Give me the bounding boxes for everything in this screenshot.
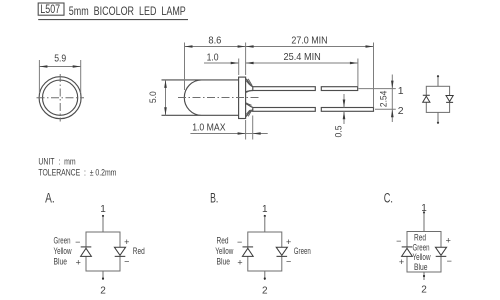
mini schematic left diode [423, 95, 430, 102]
svg-text:25.4 MIN: 25.4 MIN [284, 52, 321, 63]
dim 8.6 left extension [184, 43, 186, 91]
svg-text:5.9: 5.9 [54, 54, 66, 65]
dim 1.0 line with outside arrow [204, 62, 239, 64]
svg-text:1: 1 [100, 204, 106, 215]
svg-text:+: + [399, 257, 404, 267]
svg-text:+: + [286, 237, 291, 247]
svg-text:Yellow: Yellow [215, 246, 233, 256]
dim 2.54 lead1 extension [359, 88, 396, 90]
side view dome body [162, 80, 239, 115]
dim 5.9 extension lines [38, 60, 40, 93]
seating plane extension [245, 43, 247, 76]
svg-text:L507: L507 [40, 4, 60, 16]
svg-text:UNIT : mm: UNIT : mm [38, 157, 75, 168]
circuit A pin 2 dot [102, 277, 104, 279]
circuit C right diode [435, 247, 446, 256]
svg-text:−: − [286, 257, 291, 267]
svg-text:Blue: Blue [54, 257, 68, 267]
svg-text:Red: Red [217, 236, 229, 246]
svg-text:+: + [124, 237, 129, 247]
svg-text:A.: A. [45, 191, 55, 206]
svg-text:5mm BICOLOR LED LAMP: 5mm BICOLOR LED LAMP [69, 4, 186, 18]
side view flange [239, 77, 246, 118]
svg-text:27.0 MIN: 27.0 MIN [291, 35, 327, 46]
circuit B body rect [248, 232, 282, 271]
dim 25.4 MIN right extension [357, 59, 359, 87]
mini schematic pin 1 dot [437, 75, 439, 77]
circuit B pin 2 wire [264, 271, 266, 280]
mini schematic body rect [426, 86, 449, 112]
svg-text:Green: Green [413, 242, 430, 252]
front view horizontal centerline [37, 97, 85, 99]
circuit B pin 1 dot [264, 215, 266, 217]
svg-text:8.6: 8.6 [208, 36, 221, 47]
svg-text:+: + [76, 258, 81, 268]
svg-text:+: + [446, 236, 451, 246]
front view outer circle [39, 77, 81, 119]
svg-text:C.: C. [384, 191, 393, 206]
dim 2.54 line [391, 75, 393, 89]
dim 5.9 line [39, 66, 80, 68]
svg-text:0.5: 0.5 [334, 126, 344, 138]
svg-text:Blue: Blue [217, 257, 231, 267]
dim 0.5 line lower [343, 111, 345, 124]
lead 2 segment b [321, 108, 373, 112]
circuit C pin 1 dot [423, 211, 425, 213]
svg-text:−: − [237, 237, 242, 247]
svg-text:1.0 MAX: 1.0 MAX [192, 123, 225, 134]
dim 27.0 MIN line [246, 46, 374, 48]
svg-text:TOLERANCE : ± 0.2mm: TOLERANCE : ± 0.2mm [38, 167, 116, 178]
svg-text:2: 2 [421, 285, 427, 296]
dim 1.0 MAX line [190, 133, 267, 135]
circuit A pin 1 wire [102, 216, 104, 232]
dim 27.0 MIN right extension [373, 43, 375, 108]
front view vertical centerline [59, 74, 61, 122]
circuit B pin 2 dot [264, 277, 266, 279]
svg-text:−: − [396, 236, 401, 246]
circuit A body rect [86, 232, 120, 271]
circuit C left diode [402, 247, 413, 257]
circuit B right diode (green) [276, 247, 287, 256]
title underline [38, 19, 188, 21]
svg-text:Green: Green [294, 246, 311, 256]
lead 1 segment a [253, 87, 315, 91]
circuit C pin 2 dot [423, 275, 425, 277]
svg-text:2: 2 [398, 105, 404, 117]
svg-text:Blue: Blue [414, 262, 428, 272]
svg-text:5.0: 5.0 [148, 91, 158, 103]
svg-text:Yellow: Yellow [54, 246, 72, 256]
svg-text:1: 1 [262, 204, 268, 215]
circuit B left diode (red/yellow/blue) [242, 247, 253, 257]
mini schematic right diode [446, 96, 453, 103]
svg-text:B.: B. [210, 191, 218, 206]
svg-text:Yellow: Yellow [413, 252, 431, 262]
svg-text:1.0: 1.0 [207, 52, 219, 63]
svg-text:Red: Red [414, 233, 426, 243]
circuit A right diode (red) [114, 247, 125, 256]
dim 5.0 line [165, 80, 167, 115]
title box L507 [38, 3, 64, 16]
circuit A pin 2 wire [102, 271, 104, 280]
mini schematic pin 2 dot [437, 122, 439, 124]
svg-text:2: 2 [100, 286, 106, 297]
circuit B pin 1 wire [264, 216, 266, 232]
dim 25.4 MIN line [246, 62, 358, 64]
front view inner circle [43, 80, 78, 115]
svg-text:2: 2 [262, 286, 268, 297]
circuit A left diode (green/yellow/blue) [81, 247, 92, 257]
svg-text:−: − [75, 237, 80, 247]
side view epoxy rear horns [246, 79, 253, 118]
circuit C body rect [407, 232, 441, 273]
dim 1.0 flange extension [238, 59, 240, 76]
svg-text:Green: Green [54, 236, 71, 246]
circuit A pin 1 dot [102, 215, 104, 217]
mini schematic pin 1 wire [437, 76, 439, 86]
dim 0.5 line upper [343, 94, 345, 108]
dim 8.6 line [185, 46, 246, 48]
circuit C pin 1 wire [423, 213, 425, 232]
svg-text:Red: Red [133, 246, 145, 256]
svg-text:1: 1 [398, 85, 404, 97]
svg-text:−: − [447, 256, 452, 266]
dim 2.54 lead2 extension [375, 108, 396, 110]
side view rear hatch lines [246, 79, 252, 117]
mini schematic pin 2 wire [437, 112, 439, 122]
dim 1.0 MAX extensions [245, 120, 247, 140]
svg-text:−: − [124, 257, 129, 267]
lead 2 segment a [253, 108, 315, 112]
svg-text:+: + [237, 258, 242, 268]
lead 1 segment b [321, 87, 357, 91]
side view centerline [178, 97, 259, 99]
svg-text:2.54: 2.54 [377, 91, 388, 107]
circuit C pin 2 wire [423, 272, 425, 280]
